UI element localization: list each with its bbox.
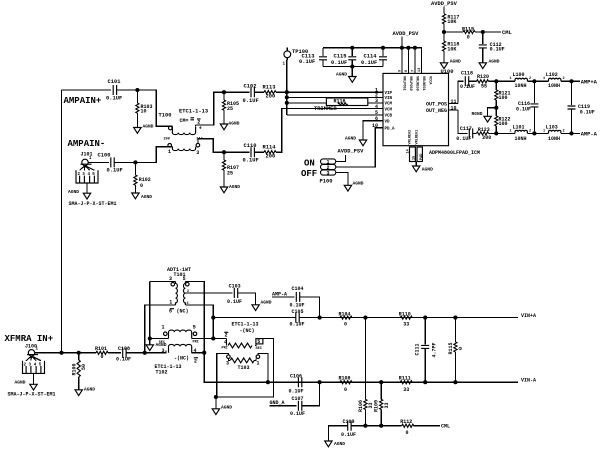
svg-text:5: 5 [183, 276, 186, 282]
ground AGND P100 [344, 180, 364, 191]
svg-text:T103: T103 [238, 365, 250, 371]
row A wire [213, 317, 518, 319]
node OFF label [301, 169, 317, 179]
svg-text:0: 0 [344, 321, 347, 327]
wire R120 to L100 [489, 80, 516, 82]
svg-text:R106: R106 [358, 400, 364, 412]
svg-text:0.1UF: 0.1UF [580, 109, 595, 115]
resistor R100 [71, 353, 87, 390]
wire R113 to IC pin 1 [276, 91, 383, 93]
svg-text:VRLNEG1: VRLNEG1 [421, 76, 425, 91]
svg-text:SEC: SEC [159, 341, 165, 345]
svg-text:U100: U100 [441, 69, 454, 75]
node junction C106/C107 [318, 380, 322, 384]
node AMPAIN- [68, 139, 106, 149]
node AMP-A stub [272, 291, 295, 297]
svg-text:15: 15 [413, 156, 417, 160]
svg-text:0: 0 [344, 387, 347, 393]
resistor R103 [136, 90, 153, 128]
inductor L100 [510, 72, 532, 89]
ground AGND stub [212, 404, 232, 414]
node junction gnd stub [214, 395, 218, 399]
svg-text:10NH: 10NH [548, 136, 560, 142]
svg-text:0.1UF: 0.1UF [341, 432, 356, 438]
capacitor C110 [243, 143, 259, 164]
svg-text:VIP: VIP [385, 92, 393, 96]
node junction top chain [222, 90, 226, 94]
svg-text:0.1UF: 0.1UF [290, 411, 305, 417]
svg-text:-(NC): -(NC) [240, 328, 255, 334]
node junction C116 top [532, 79, 536, 83]
svg-text:TRIMMER: TRIMMER [314, 106, 337, 112]
svg-text:1: 1 [543, 77, 545, 81]
svg-text:C107: C107 [292, 396, 304, 402]
ground AGND below R118 [440, 58, 461, 68]
capacitor C118 [460, 70, 475, 90]
capacitor C108 [116, 346, 131, 362]
wire T103 sec left loop [217, 353, 229, 397]
svg-text:VRLNEG0: VRLNEG0 [414, 76, 418, 91]
node CML label [502, 30, 512, 36]
wire junction to C110 [224, 151, 249, 153]
svg-text:200: 200 [164, 137, 170, 141]
svg-text:55: 55 [481, 84, 487, 90]
wire P100 pin3 to ground [336, 173, 348, 186]
svg-text:0.1UF: 0.1UF [490, 47, 505, 53]
svg-text:10K: 10K [447, 46, 456, 52]
resistor R112 [400, 419, 414, 436]
node junction AMPAIN+ riser [59, 351, 63, 355]
svg-text:10NH: 10NH [515, 136, 527, 142]
resistor R108 [339, 376, 353, 393]
svg-text:0.1UF: 0.1UF [460, 84, 475, 90]
node junction row A left [211, 316, 215, 320]
resistor R121 [495, 81, 511, 107]
svg-text:4.7PF: 4.7PF [431, 342, 437, 357]
node junction R109 bottom [379, 424, 383, 428]
wire L102 to AMP+A [561, 80, 580, 82]
capacitor C115 [331, 48, 356, 67]
svg-text:VCM: VCM [385, 108, 393, 112]
svg-text:P100: P100 [320, 178, 333, 184]
node junction T101 riser [143, 351, 147, 355]
svg-text:VCB: VCB [385, 115, 393, 119]
wire T101 pin5 riser to row B [185, 281, 518, 382]
svg-text:C104: C104 [292, 286, 304, 292]
svg-text:AGND: AGND [353, 180, 364, 186]
node AMP+A label [581, 79, 598, 85]
svg-text:ON: ON [304, 158, 315, 168]
resistor R107 [222, 152, 239, 187]
value label SMA-J-P-X-ST-EM1 [8, 392, 56, 398]
resistor R117 [442, 14, 459, 32]
resistor R110 [399, 311, 412, 327]
svg-text:AVDD_PSV: AVDD_PSV [338, 149, 365, 155]
node junction T103/row B [266, 380, 270, 384]
node junction T102 pin4 [202, 351, 206, 355]
node VIN-A label [521, 378, 536, 384]
pin numbers top rotated [399, 68, 423, 72]
node junction TP100/pin1 [285, 90, 289, 94]
svg-text:+: + [199, 125, 202, 131]
svg-text:L101: L101 [513, 124, 525, 130]
node junction T102 pin1 row [148, 336, 152, 340]
svg-text:AGND: AGND [15, 379, 26, 385]
wire C110 to R114 [254, 151, 264, 153]
wire stub to ground [215, 397, 217, 409]
svg-text:0: 0 [406, 430, 409, 436]
svg-text:0.1UF: 0.1UF [227, 299, 242, 305]
capacitor C113 [299, 48, 327, 67]
node GND_A stub [270, 400, 297, 406]
svg-text:PRI: PRI [222, 346, 228, 350]
svg-text:33: 33 [403, 387, 409, 393]
node junction R109 top [379, 380, 383, 384]
inductor L101 [510, 124, 532, 141]
svg-text:R108: R108 [339, 376, 351, 382]
value label SMA-J-P-X-ST-EM1 [69, 201, 117, 207]
resistor R115 [448, 318, 464, 383]
node junction C116 bottom [532, 131, 536, 135]
svg-text:AGND: AGND [334, 441, 345, 447]
capacitor C102 [243, 83, 259, 104]
svg-text:1: 1 [543, 130, 545, 134]
svg-text:100: 100 [499, 95, 508, 101]
svg-text:R111: R111 [399, 376, 411, 382]
test point TP100 [283, 48, 309, 67]
svg-text:SMA-J-P-X-ST-EM1: SMA-J-P-X-ST-EM1 [8, 392, 56, 398]
svg-text:ETC1-1-13: ETC1-1-13 [179, 109, 208, 115]
node junction R122 bottom [494, 131, 498, 135]
wire C117 to R123 [473, 132, 477, 134]
svg-text:-(NC): -(NC) [174, 356, 189, 362]
ground AGND below R107 [220, 184, 240, 193]
svg-text:C108: C108 [118, 346, 130, 352]
resistor R101 [95, 346, 108, 360]
connector P100 jumper [320, 159, 336, 184]
wire CML row [328, 426, 401, 441]
transformer T102 [155, 324, 227, 375]
svg-text:1: 1 [169, 300, 172, 306]
svg-text:R114: R114 [263, 145, 277, 151]
svg-text:AGND: AGND [221, 404, 232, 410]
svg-text:4: 4 [375, 104, 378, 110]
svg-text:AGND: AGND [141, 194, 152, 200]
svg-text:200: 200 [482, 135, 491, 141]
svg-text:5: 5 [193, 324, 196, 330]
wire R114 to IC pin 4 [276, 109, 383, 153]
node junction C119 top [569, 79, 573, 83]
node junction C111 top [423, 316, 427, 320]
resistor R119 [444, 26, 475, 40]
svg-text:9: 9 [399, 70, 403, 72]
ground AGND below R103 [134, 124, 154, 134]
resistor R104 [339, 311, 353, 327]
svg-text:VIN: VIN [385, 97, 393, 101]
svg-text:200: 200 [266, 154, 276, 160]
pin numbers left [372, 88, 378, 130]
svg-text:2: 2 [529, 77, 531, 81]
node AVDD_PSV top right [431, 1, 458, 14]
top pin stubs [402, 48, 415, 74]
capacitor C104 [290, 286, 305, 309]
node junction C111 bottom [423, 380, 427, 384]
svg-text:2: 2 [563, 77, 565, 81]
svg-text:AMPAIN+: AMPAIN+ [64, 96, 102, 106]
svg-text:10NH: 10NH [548, 83, 560, 89]
svg-text:25: 25 [227, 171, 233, 177]
ground AGND for J100 [15, 379, 38, 390]
pin names bottom inside U100 rotated [409, 130, 420, 145]
svg-text:C117: C117 [460, 126, 472, 132]
svg-text:PD_A: PD_A [385, 128, 396, 132]
node junction R121/R122 [494, 106, 498, 110]
wire T103 pin5 loop to ground stub [216, 339, 274, 397]
svg-text:AGND: AGND [345, 135, 356, 141]
svg-text:AGND: AGND [68, 189, 79, 195]
svg-text:L100: L100 [513, 72, 525, 78]
transformer T101 [167, 267, 195, 315]
svg-text:0.1UF: 0.1UF [289, 388, 304, 394]
svg-text:T100: T100 [159, 113, 172, 119]
wire OUT_POS riser [458, 81, 464, 103]
svg-text:0.1UF: 0.1UF [290, 303, 305, 309]
svg-text:50: 50 [81, 364, 87, 370]
svg-text:2: 2 [225, 332, 228, 338]
svg-text:R119: R119 [462, 26, 474, 32]
resistor R109 [374, 382, 390, 426]
wire T103 sec right to row B [258, 353, 268, 382]
wire R112 to CML [414, 425, 440, 427]
svg-text:0.1UF: 0.1UF [361, 60, 377, 66]
wire T101 pin2 to C103 [195, 292, 233, 294]
svg-text:T102: T102 [156, 370, 168, 376]
svg-text:OUT_NEG: OUT_NEG [426, 108, 447, 114]
svg-text:VRLPOS1: VRLPOS1 [401, 76, 405, 91]
ground AGND pad [413, 166, 434, 173]
svg-text:VRLPOS0: VRLPOS0 [408, 76, 412, 91]
pin 6 wire to ground [363, 121, 383, 140]
ground AGND below R102 [132, 193, 153, 200]
inductor L102 [543, 72, 565, 89]
node junction R115 bottom [453, 380, 457, 384]
svg-text:2: 2 [194, 358, 197, 364]
svg-text:R110: R110 [399, 311, 411, 317]
wire R116 to vertical [287, 102, 327, 104]
svg-text:PAD: PAD [420, 154, 424, 160]
connector J100 [23, 343, 45, 384]
svg-text:R112: R112 [400, 419, 412, 425]
svg-text:100: 100 [499, 121, 508, 127]
ground AGND below R100 [75, 387, 95, 396]
wire C107 to row B [302, 382, 320, 406]
svg-text:1: 1 [510, 77, 512, 81]
wire T101 pin3 riser to T102 pin1 [150, 281, 176, 344]
svg-text:AGND: AGND [336, 71, 347, 77]
svg-text:VRLNEG2: VRLNEG2 [409, 130, 413, 145]
svg-text:C105: C105 [292, 309, 304, 315]
svg-text:33: 33 [403, 321, 409, 327]
svg-text:AGND: AGND [143, 124, 154, 130]
svg-text:RGND: RGND [472, 111, 483, 117]
svg-text:0.1UF: 0.1UF [106, 96, 122, 102]
ground AGND below R105 [220, 121, 239, 130]
svg-text:0: 0 [467, 35, 470, 41]
svg-text:0: 0 [458, 347, 464, 350]
svg-text:AMP-A: AMP-A [581, 131, 598, 137]
wire T101 pin1 riser [145, 305, 176, 353]
capacitor C107 [290, 396, 305, 417]
wire XFMRA row [35, 352, 96, 354]
svg-text:0: 0 [140, 183, 143, 189]
svg-text:R100: R100 [71, 363, 77, 375]
svg-text:5: 5 [257, 339, 260, 345]
node junction R100 top [77, 351, 81, 355]
capacitor C109 [341, 419, 356, 438]
node junction R104/R110/R106 [363, 316, 367, 320]
svg-text:3: 3 [162, 348, 165, 354]
node CML label [441, 423, 450, 429]
svg-text:R115: R115 [448, 342, 454, 354]
node junction pin3 wire [285, 101, 289, 105]
wire AMPAIN+ vertical to XFMRA row [61, 90, 63, 353]
node junction C104/row A [318, 316, 322, 320]
ground AGND pin6 [345, 135, 367, 145]
wire C101 to T100 [117, 90, 173, 126]
svg-text:C101: C101 [108, 79, 121, 85]
svg-text:ETC1-1-13: ETC1-1-13 [232, 321, 259, 327]
svg-text:OUT_POS: OUT_POS [426, 101, 447, 107]
svg-text:OFF: OFF [301, 169, 317, 179]
node junction R106 bottom [363, 424, 367, 428]
svg-text:C103: C103 [229, 283, 241, 289]
node AMP-A label [581, 131, 598, 137]
node junction bottom chain [222, 150, 226, 154]
bottom pad pins 14 15 [407, 147, 424, 166]
wire T101 pin4 to row A riser [185, 305, 213, 339]
svg-text:C102: C102 [244, 83, 257, 89]
capacitor C114 [361, 48, 387, 67]
wire TP100 to pins 1/2/5 [287, 60, 383, 115]
pin 11 OUT_POS [426, 99, 458, 108]
svg-text:R123: R123 [478, 127, 490, 133]
svg-text:R120: R120 [477, 74, 489, 80]
wire C102 to R113 [254, 91, 264, 93]
node junction C119 bottom [569, 131, 573, 135]
svg-text:AGND: AGND [261, 299, 272, 305]
node AVDD_PSV top of bus [393, 31, 420, 48]
svg-text:CML: CML [441, 423, 450, 429]
wire L100 to L102 [527, 80, 548, 82]
svg-text:L103: L103 [546, 124, 558, 130]
svg-text:AGND: AGND [84, 387, 95, 393]
svg-text:C115: C115 [334, 54, 347, 60]
capacitor C116 [516, 81, 538, 133]
wire T100 top output to IC pin1 chain [196, 92, 224, 125]
capacitor C100 [98, 153, 123, 174]
svg-text:VIN-A: VIN-A [521, 378, 536, 384]
resistor R113 [263, 85, 277, 100]
wire P100 pin1 to AVDD_PSV [336, 149, 364, 162]
svg-text:0.1UF: 0.1UF [243, 98, 259, 104]
ground RGND [472, 108, 497, 122]
svg-text:8: 8 [405, 70, 409, 72]
svg-text:VD: VD [385, 121, 391, 125]
wire L101 to L103 [527, 132, 548, 134]
value label part number [429, 150, 480, 156]
wire C108 to T102 pin3 [126, 351, 166, 353]
svg-text:1: 1 [162, 324, 165, 330]
transformer T103 [222, 321, 263, 371]
svg-text:R109: R109 [374, 400, 380, 412]
ground AGND CML row [325, 441, 346, 447]
svg-text:6: 6 [169, 309, 172, 315]
svg-text:C110: C110 [244, 143, 257, 149]
svg-text:VIN+A: VIN+A [521, 313, 536, 319]
svg-text:13: 13 [418, 68, 422, 72]
capacitor C105 [290, 309, 305, 328]
svg-text:C114: C114 [364, 54, 378, 60]
svg-text:PRI: PRI [193, 341, 199, 345]
svg-text:1: 1 [257, 360, 260, 366]
resistor R105 [222, 92, 239, 124]
svg-text:25: 25 [227, 106, 233, 112]
node junction cap gnd [350, 65, 354, 69]
svg-text:1: 1 [168, 149, 171, 155]
svg-text:3: 3 [169, 276, 172, 282]
svg-text:AGND: AGND [450, 58, 461, 64]
node AMPAIN+ [64, 96, 102, 106]
wire C104 to row A [300, 297, 320, 318]
svg-text:C106: C106 [290, 373, 302, 379]
svg-text:3: 3 [226, 360, 229, 366]
svg-text:AGND: AGND [422, 167, 433, 173]
svg-text:AGND: AGND [229, 184, 240, 190]
capacitor C112 [479, 32, 505, 63]
svg-text:0.1UF: 0.1UF [456, 136, 471, 142]
resistor R102 [134, 162, 151, 193]
node junctions on bus [350, 46, 417, 50]
svg-text:CML: CML [502, 30, 512, 36]
resistor R120 [477, 74, 490, 90]
resistor R114 [263, 145, 277, 160]
wire junction to C102 [224, 91, 249, 93]
svg-text:7: 7 [412, 70, 416, 72]
wire AMPAIN+ row [62, 89, 111, 91]
svg-text:VRLNEG1: VRLNEG1 [416, 130, 420, 145]
ground AGND cap bus [336, 71, 356, 82]
svg-text:(NC): (NC) [177, 309, 189, 315]
pin names left inside U100 [385, 92, 396, 132]
svg-text:3: 3 [196, 150, 199, 156]
node VIN+A label [521, 313, 536, 319]
svg-text:SMA-J-P-X-ST-EM1: SMA-J-P-X-ST-EM1 [69, 201, 117, 207]
svg-text:4: 4 [224, 339, 227, 345]
pin 10 wire to jumper [336, 128, 383, 167]
capacitor C103 [227, 283, 242, 305]
svg-text:CM=: CM= [180, 118, 189, 124]
svg-text:200: 200 [266, 94, 276, 100]
wire cap ground bus [323, 67, 383, 77]
node junction R115 top [453, 316, 457, 320]
node junction R117/R118/R119 [442, 30, 446, 34]
wire R101 to C108 [108, 352, 121, 354]
svg-text:33: 33 [384, 402, 390, 408]
svg-text:0.1UF: 0.1UF [290, 322, 305, 328]
wire L103 to AMP-A [561, 132, 580, 134]
svg-text:0.1UF: 0.1UF [516, 106, 531, 112]
svg-text:R104: R104 [339, 311, 351, 317]
